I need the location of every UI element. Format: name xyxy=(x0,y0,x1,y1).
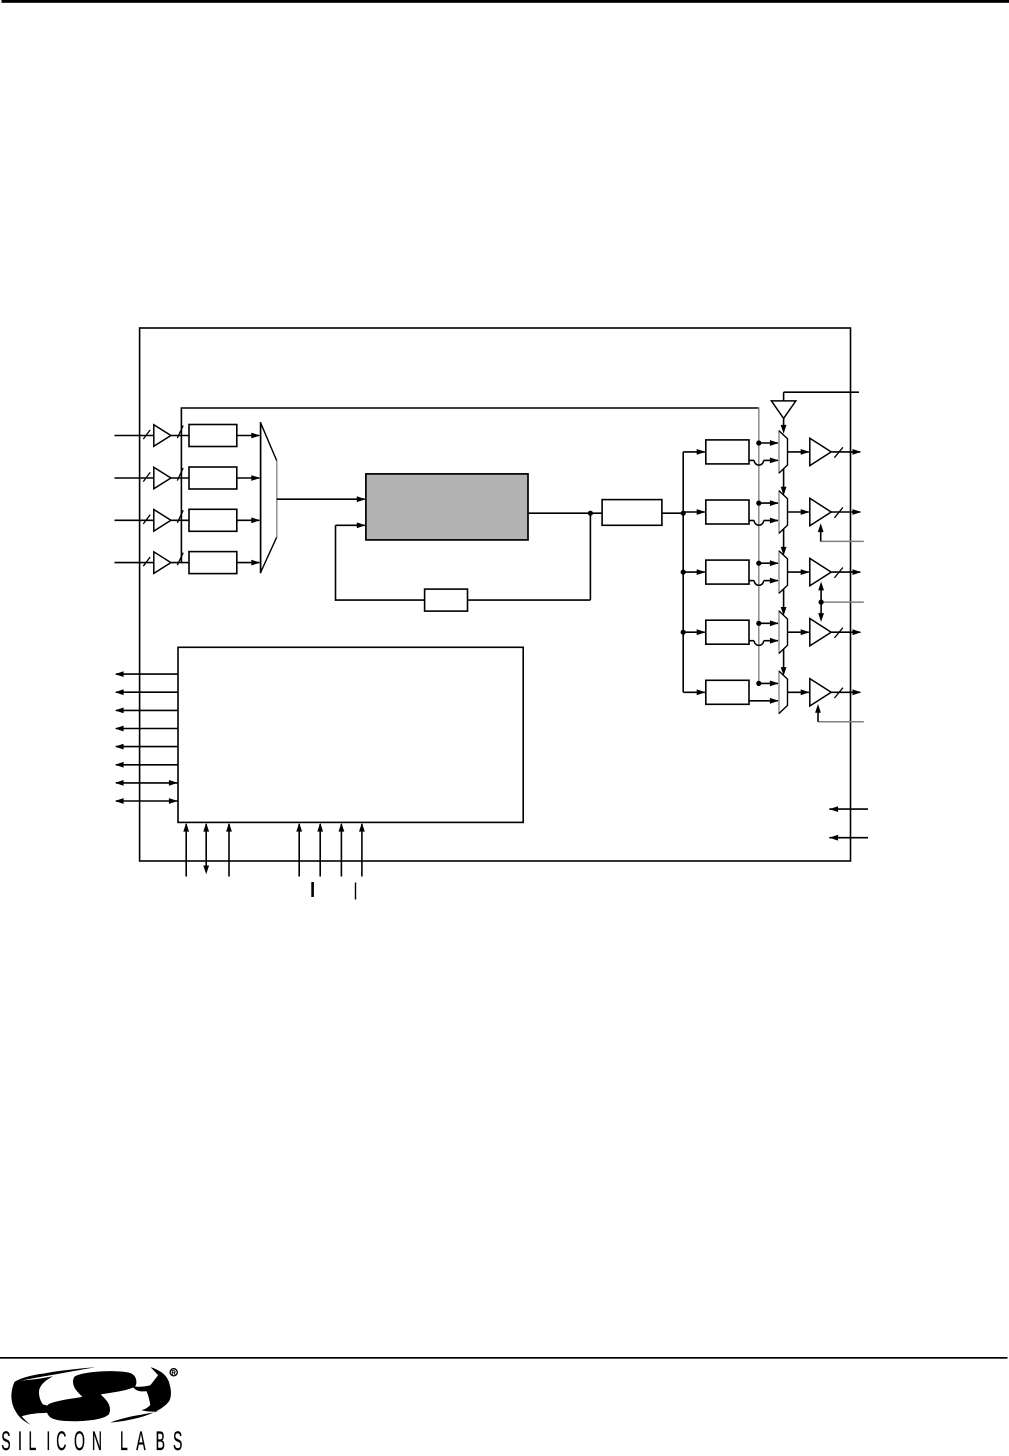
svg-text:N: N xyxy=(92,1426,102,1451)
wire divider4 to input mux xyxy=(237,562,260,564)
wire distribution net to mux row5 xyxy=(759,682,778,684)
output divider block row1 xyxy=(706,440,749,464)
bus-width slash on output 3 xyxy=(834,568,843,578)
output divider block row5 xyxy=(706,680,749,704)
wire mux to output buffer row2 xyxy=(788,511,809,513)
control stub B (buffers 3-4, bidirectional) xyxy=(821,601,864,603)
bus-width slash on CKIN4 xyxy=(143,557,150,566)
select wire into mux row1 xyxy=(783,418,785,425)
bus-width slash on output 2 xyxy=(834,507,843,517)
control input wire bottom 7 xyxy=(361,824,363,877)
wire buffer1 to divider xyxy=(171,435,189,437)
bus-width slash on CKIN1 xyxy=(143,430,150,439)
control input wire bottom 6 xyxy=(340,824,342,877)
svg-text:L: L xyxy=(29,1426,37,1451)
text remnant tick 1 xyxy=(311,882,314,897)
wire buffer2 to divider xyxy=(171,477,189,479)
output divider block row4 xyxy=(706,620,749,644)
node distribution junction row2 xyxy=(756,501,761,506)
status output wire 2 xyxy=(116,691,178,693)
svg-text:L: L xyxy=(120,1426,128,1451)
bus-width slash after buffer 2 xyxy=(177,468,183,481)
wire mux to output buffer row4 xyxy=(788,631,809,633)
wire divider row5 to mux (with hop) xyxy=(749,700,778,702)
input mux M1 xyxy=(261,423,277,573)
select chain wire row3 to row4 xyxy=(783,589,785,608)
select buffer (down triangle) xyxy=(771,401,795,419)
wire divider2 to input mux xyxy=(237,477,260,479)
svg-text:S: S xyxy=(1,1426,10,1451)
bus-width slash on output 1 xyxy=(834,447,843,457)
feedback wire (up segment) xyxy=(335,525,337,601)
svg-text:A: A xyxy=(136,1426,146,1451)
input divider block D1 xyxy=(189,425,237,447)
bus-width slash on output 4 xyxy=(834,628,843,638)
wire input mux to PLL xyxy=(277,498,365,500)
input buffer U1 xyxy=(154,425,171,447)
status output wire 3 xyxy=(116,709,178,711)
node PLL output junction xyxy=(588,511,593,516)
input CKIN2 wire xyxy=(115,477,154,479)
wire mux to output buffer row5 xyxy=(788,691,809,693)
Silicon Labs logo swirl - right mass with tails xyxy=(110,1367,171,1422)
select input wire (top) xyxy=(783,392,785,401)
text remnant tick 2 xyxy=(355,883,356,900)
input CKIN3 wire xyxy=(115,519,154,521)
input buffer U2 xyxy=(154,467,171,489)
bus-width slash after buffer 1 xyxy=(177,426,183,439)
output wire CKOUT4 xyxy=(831,631,860,633)
output mux row4 xyxy=(779,611,788,653)
control block xyxy=(178,647,523,822)
status output wire 6 xyxy=(116,764,178,766)
status output wire 7 xyxy=(116,782,178,784)
svg-text:B: B xyxy=(156,1426,165,1451)
input CKIN1 wire xyxy=(115,435,154,437)
bus-width slash on CKIN3 xyxy=(143,515,150,524)
wire divider1 to input mux xyxy=(237,435,260,437)
input buffer U4 xyxy=(154,552,171,574)
wire distribution net to mux row3 xyxy=(759,562,778,564)
wire trunk to divider row1 xyxy=(683,451,705,453)
select chain wire row4 to row5 xyxy=(783,649,785,668)
input divider block D2 xyxy=(189,467,237,489)
output buffer row5 xyxy=(810,679,831,706)
control input wire bottom 5 xyxy=(319,824,321,877)
node distribution junction row1 xyxy=(756,440,761,445)
output mux row2 xyxy=(779,491,788,533)
output buffer row2 xyxy=(810,498,831,525)
feedback divider block xyxy=(425,589,468,611)
output buffer row4 xyxy=(810,619,831,646)
output divider block row3 xyxy=(706,560,749,584)
distribution trunk wire xyxy=(682,452,684,692)
control input wire right 1 xyxy=(829,808,868,810)
wire trunk to divider row4 xyxy=(683,631,705,633)
svg-text:I: I xyxy=(18,1426,22,1451)
output buffer row3 xyxy=(810,558,831,585)
wire trunk to divider row2 xyxy=(683,511,705,513)
output wire CKOUT2 xyxy=(831,511,860,513)
bus-width slash on CKIN2 xyxy=(143,472,150,481)
feedback wire (left segment) xyxy=(336,599,425,601)
wire PLL output xyxy=(528,512,602,514)
control stub A (into buffer 2) xyxy=(821,540,864,542)
wire divider row1 to mux (with hop) xyxy=(749,459,754,461)
node distribution junction row5 xyxy=(756,681,761,686)
Silicon Labs logo swirl - left mass with swoosh and tail xyxy=(11,1367,95,1425)
wire divider row4 to mux (with hop) xyxy=(749,640,754,642)
control input wire bottom 1 xyxy=(185,824,187,877)
output wire CKOUT1 xyxy=(831,451,860,453)
output divider block row2 xyxy=(706,500,749,524)
wire mux to output buffer row1 xyxy=(788,451,809,453)
output wire CKOUT3 xyxy=(831,571,860,573)
Silicon Labs logo swirl - center S core xyxy=(73,1371,136,1400)
control input wire bottom 4 xyxy=(298,824,300,877)
svg-text:C: C xyxy=(56,1426,66,1451)
wire divider row3 to mux (with hop) xyxy=(749,580,754,582)
output divider block xyxy=(602,500,662,526)
bus-width slash on output 5 xyxy=(834,688,843,698)
svg-text:I: I xyxy=(46,1426,50,1451)
status output wire 1 xyxy=(116,673,178,675)
wire trunk to divider row5 xyxy=(683,691,705,693)
PLL block xyxy=(366,474,528,540)
input CKIN4 wire xyxy=(115,562,154,564)
output mux row5 xyxy=(779,671,788,713)
wire distribution net to mux row4 xyxy=(759,622,778,624)
bus-width slash after buffer 4 xyxy=(177,553,183,566)
node distribution junction row4 xyxy=(756,621,761,626)
input buffer U3 xyxy=(154,510,171,532)
registered trademark symbol xyxy=(170,1369,177,1376)
select chain wire row1 to row2 xyxy=(783,469,785,488)
wire distribution net to mux row2 xyxy=(759,502,778,504)
input divider block D4 xyxy=(189,552,237,574)
output mux row1 xyxy=(779,431,788,473)
control input wire bottom 3 xyxy=(228,824,230,877)
wire buffer4 to divider xyxy=(171,562,189,564)
feedback wire (to feedback divider) xyxy=(468,599,591,601)
output mux row3 xyxy=(779,551,788,593)
svg-text:R: R xyxy=(172,1371,177,1377)
clock select net wire (top horizontal) xyxy=(181,407,759,409)
node distribution junction row3 xyxy=(756,561,761,566)
wire divider row2 to mux (with hop) xyxy=(749,520,754,522)
status output wire 5 xyxy=(116,746,178,748)
status output wire 4 xyxy=(116,728,178,730)
bus-width slash after buffer 3 xyxy=(177,510,183,523)
node trunk junction row4 xyxy=(681,630,686,635)
control stub C (into buffer 5) xyxy=(818,721,864,723)
svg-text:O: O xyxy=(74,1426,85,1451)
top header rule xyxy=(2,0,1009,3)
clock select net wire (left vertical) xyxy=(180,408,182,563)
input divider block D3 xyxy=(189,509,237,531)
svg-text:S: S xyxy=(173,1426,182,1451)
wire mux to output buffer row3 xyxy=(788,571,809,573)
status output wire 8 xyxy=(116,800,178,802)
output buffer row1 xyxy=(810,438,831,465)
feedback wire into PLL xyxy=(336,524,365,526)
wire distribution net to mux row1 xyxy=(759,442,778,444)
control input wire right 2 xyxy=(829,837,868,839)
select chain wire row2 to row3 xyxy=(783,529,785,548)
wire trunk to divider row3 xyxy=(683,571,705,573)
feedback wire (down from PLL output node) xyxy=(589,513,591,600)
wire divider3 to input mux xyxy=(237,519,260,521)
chip boundary box xyxy=(140,328,851,861)
control input wire bottom 2 xyxy=(205,824,207,866)
wire output divider to trunk xyxy=(662,512,683,514)
clock distribution vertical net (gray) xyxy=(758,407,760,683)
footer rule xyxy=(0,1357,1008,1359)
node trunk junction row2 xyxy=(681,511,686,516)
node trunk junction row3 xyxy=(681,570,686,575)
output wire CKOUT5 xyxy=(831,691,860,693)
wire buffer3 to divider xyxy=(171,519,189,521)
